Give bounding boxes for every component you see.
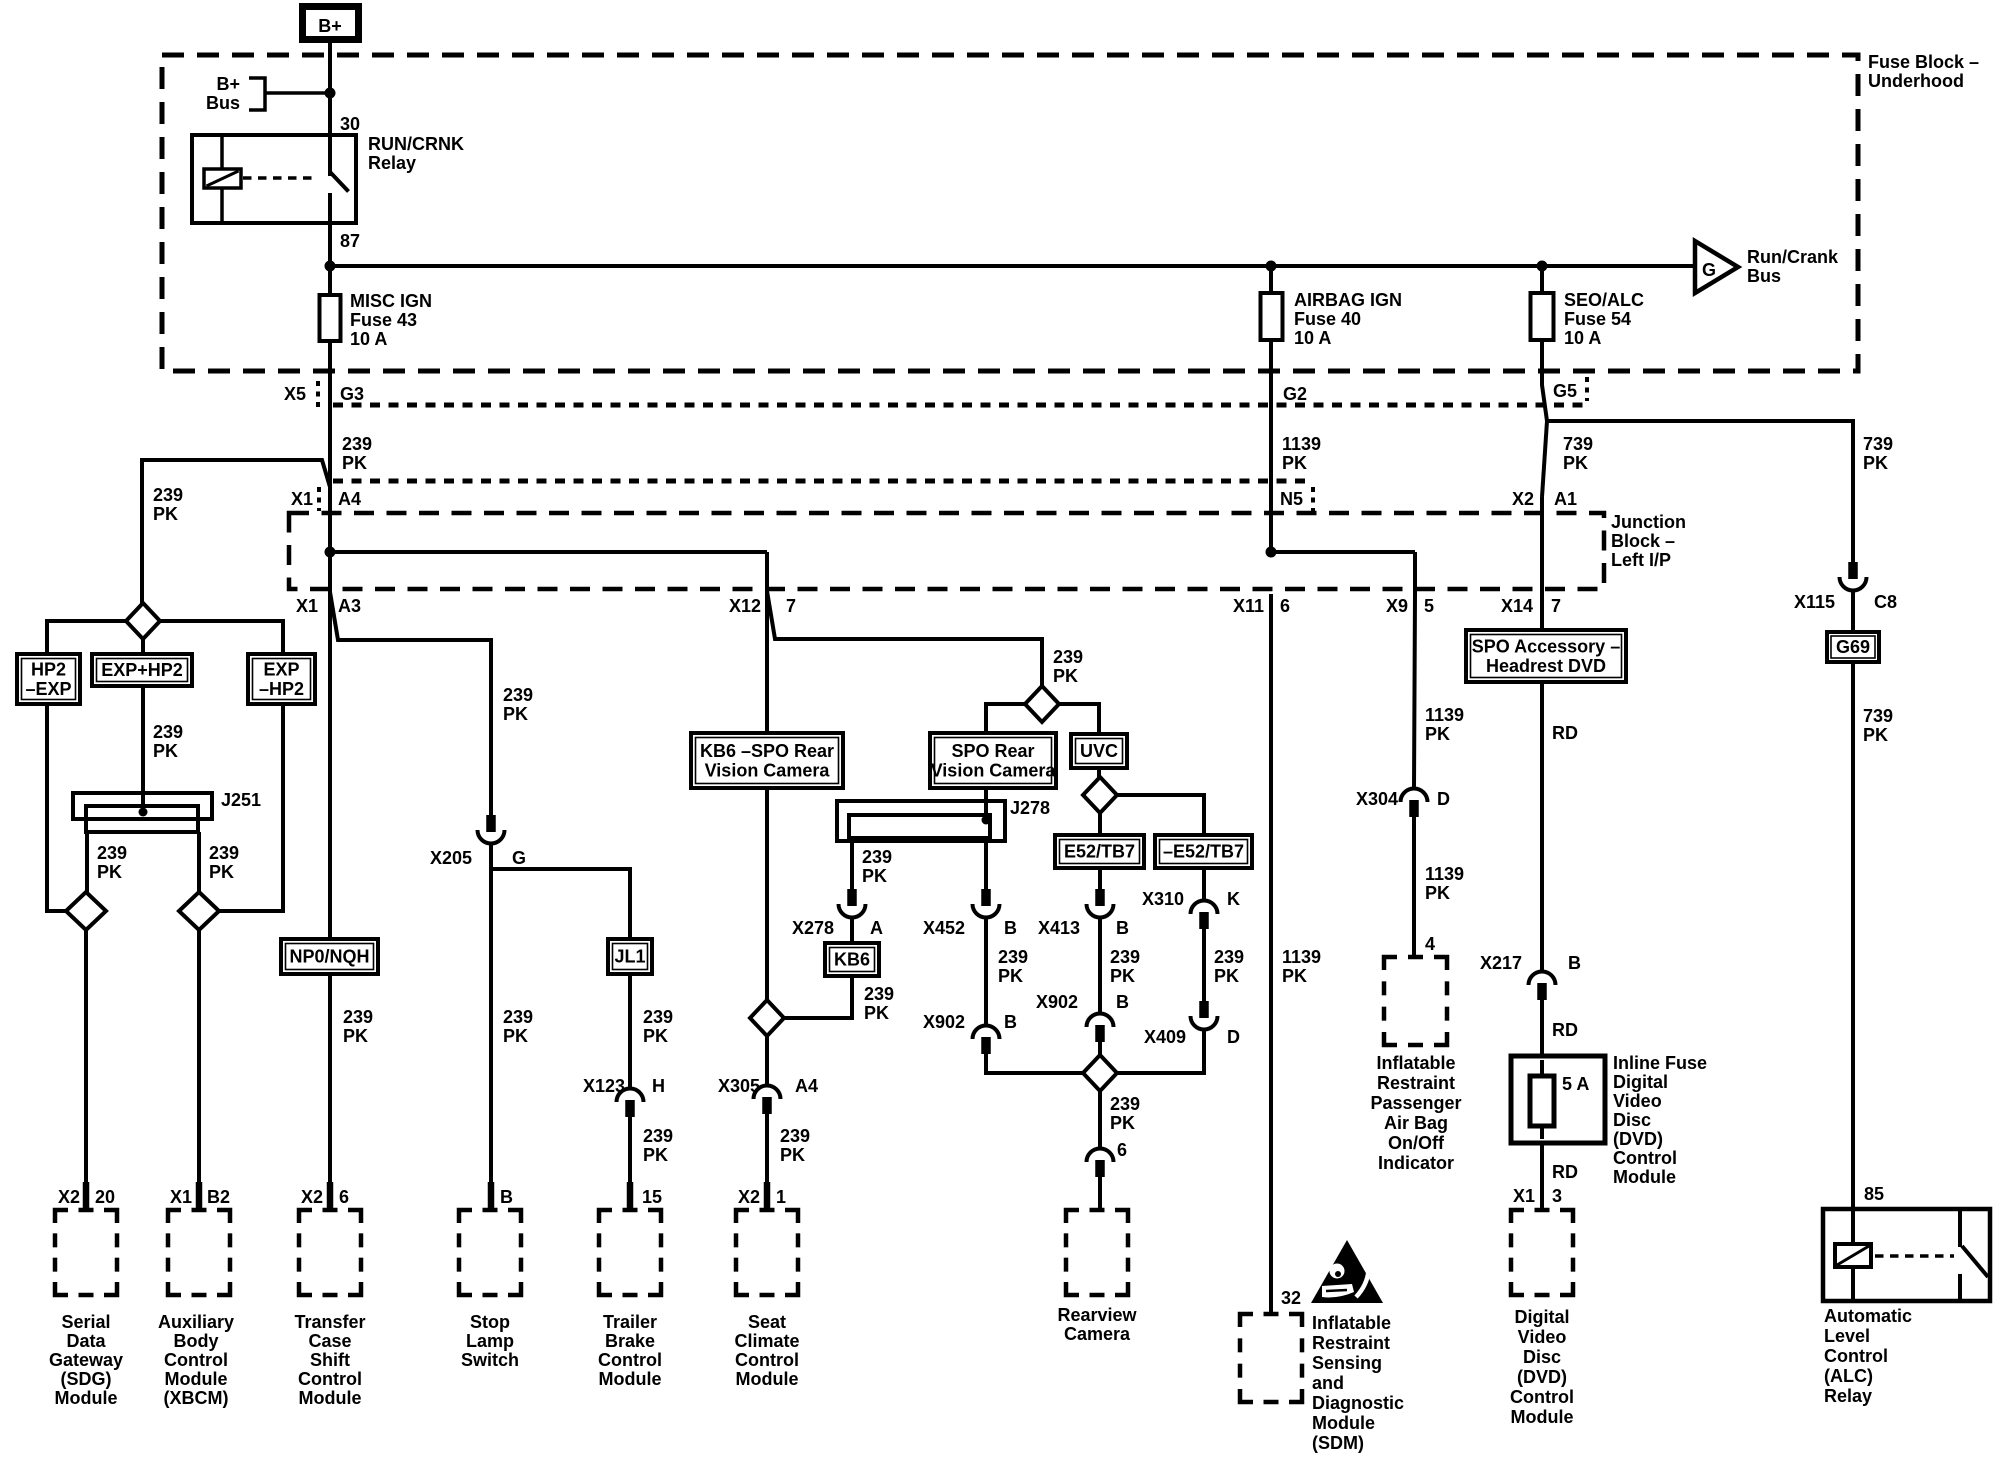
svg-text:B: B <box>1568 953 1581 973</box>
svg-text:Relay: Relay <box>368 153 416 173</box>
wire X278 to small KB6 box <box>850 918 854 943</box>
wire X902 right to rearview diamond <box>1098 1040 1102 1057</box>
svg-text:32: 32 <box>1281 1288 1301 1308</box>
svg-text:239: 239 <box>153 722 183 742</box>
svg-text:(XBCM): (XBCM) <box>164 1388 229 1408</box>
svg-text:85: 85 <box>1864 1184 1884 1204</box>
svg-text:Junction: Junction <box>1611 512 1686 532</box>
svg-text:Level: Level <box>1824 1326 1870 1346</box>
wire HP2-EXP down to SDG diamond <box>47 704 66 911</box>
fuse 43 MISC IGN <box>328 266 332 295</box>
relay actuation dashed link <box>243 176 318 180</box>
svg-text:A4: A4 <box>338 489 361 509</box>
inline connector X205 pin G <box>486 815 496 832</box>
svg-text:G3: G3 <box>340 384 364 404</box>
svg-text:Control: Control <box>164 1350 228 1370</box>
svg-text:1: 1 <box>776 1187 786 1207</box>
svg-text:Indicator: Indicator <box>1378 1153 1454 1173</box>
wire X217 to inline fuse <box>1540 1000 1544 1056</box>
svg-text:B2: B2 <box>207 1187 230 1207</box>
svg-text:(DVD): (DVD) <box>1613 1129 1663 1149</box>
svg-text:UVC: UVC <box>1080 741 1118 761</box>
wire KB6 box down to seat diamond <box>765 788 769 1001</box>
svg-text:Inflatable: Inflatable <box>1312 1313 1391 1333</box>
svg-text:Block –: Block – <box>1611 531 1675 551</box>
svg-text:239: 239 <box>503 685 533 705</box>
junction block - left I/P dashed border <box>289 513 1604 589</box>
svg-text:Body: Body <box>174 1331 219 1351</box>
option box HP2 -EXP <box>17 654 80 704</box>
wire 239 branch to left modules tree <box>142 460 330 605</box>
svg-text:KB6 –SPO Rear: KB6 –SPO Rear <box>700 741 834 761</box>
svg-text:RUN/CRNK: RUN/CRNK <box>368 134 464 154</box>
svg-text:Climate: Climate <box>734 1331 799 1351</box>
node B+ battery feed box <box>303 7 359 40</box>
svg-text:1139: 1139 <box>1425 705 1464 725</box>
svg-text:EXP+HP2: EXP+HP2 <box>101 660 183 680</box>
wire diamond2 to -E52/TB7 <box>1117 795 1204 835</box>
svg-text:EXP: EXP <box>263 659 299 679</box>
svg-text:Switch: Switch <box>461 1350 519 1370</box>
svg-text:PK: PK <box>1282 966 1307 986</box>
wire airbag ign down to SDM <box>1269 594 1273 1316</box>
option diamond UVC split <box>1083 777 1117 813</box>
svg-text:20: 20 <box>95 1187 115 1207</box>
fuse block - underhood dashed border <box>162 55 1858 371</box>
svg-text:Fuse 40: Fuse 40 <box>1294 309 1361 329</box>
option diamond seat climate <box>750 1000 784 1036</box>
svg-text:Fuse 54: Fuse 54 <box>1564 309 1631 329</box>
svg-text:7: 7 <box>786 596 796 616</box>
ALC relay coil feed wires <box>1851 1209 1855 1244</box>
wire camera box to J278 <box>984 788 988 818</box>
fuse 54 SEO/ALC <box>1540 266 1544 293</box>
option box EXP -HP2 <box>248 654 315 704</box>
svg-text:Module: Module <box>55 1388 118 1408</box>
svg-text:Disc: Disc <box>1523 1347 1561 1367</box>
svg-text:B: B <box>1116 918 1129 938</box>
wire NP0/NQH to transfer case module <box>328 974 332 1185</box>
module box Serial Data Gateway dashed <box>55 1210 68 1223</box>
svg-text:87: 87 <box>340 231 360 251</box>
svg-text:Serial: Serial <box>61 1312 110 1332</box>
svg-text:Stop: Stop <box>470 1312 510 1332</box>
ALC relay coil <box>1835 1244 1871 1267</box>
splice pack J251 <box>73 793 212 819</box>
svg-text:PK: PK <box>153 504 178 524</box>
svg-text:X115: X115 <box>1794 592 1835 612</box>
wire JL1 down <box>628 974 632 1087</box>
wire MISC IGN fuse down to junction block <box>328 403 332 552</box>
svg-text:PK: PK <box>643 1026 668 1046</box>
svg-text:239: 239 <box>643 1007 673 1027</box>
option box E52/TB7 <box>1055 835 1144 868</box>
svg-text:X205: X205 <box>430 848 472 868</box>
module box Seat Climate Control Module dashed <box>736 1210 749 1223</box>
svg-text:A: A <box>870 918 883 938</box>
svg-text:3: 3 <box>1552 1186 1562 1206</box>
svg-text:A3: A3 <box>338 596 361 616</box>
svg-text:X902: X902 <box>1036 992 1078 1012</box>
wire diamond3 down <box>1098 1091 1102 1147</box>
wire J278 left output to X278 <box>850 838 854 891</box>
svg-text:Automatic: Automatic <box>1824 1306 1912 1326</box>
svg-text:239: 239 <box>503 1007 533 1027</box>
svg-text:Relay: Relay <box>1824 1386 1872 1406</box>
svg-text:PK: PK <box>1110 966 1135 986</box>
svg-text:Headrest DVD: Headrest DVD <box>1486 656 1606 676</box>
svg-text:X2: X2 <box>738 1187 760 1207</box>
svg-text:Camera: Camera <box>1064 1324 1131 1344</box>
option box NP0/NQH <box>281 939 378 974</box>
svg-text:Control: Control <box>1613 1148 1677 1168</box>
wire X452 to X902 left <box>984 918 988 1024</box>
svg-text:239: 239 <box>1214 947 1244 967</box>
inline fuse box DVD <box>1511 1056 1605 1143</box>
svg-text:–EXP: –EXP <box>25 679 71 699</box>
svg-text:B: B <box>1004 918 1017 938</box>
wire A3 branch to stop lamp switch <box>330 592 491 832</box>
svg-text:1139: 1139 <box>1282 434 1321 454</box>
relay switch blade <box>330 172 349 192</box>
svg-text:E52/TB7: E52/TB7 <box>1064 842 1135 862</box>
svg-text:PK: PK <box>97 862 122 882</box>
wire J278 right output to X452 <box>984 838 988 891</box>
option diamond XBCM feed <box>179 892 219 930</box>
wire diamond to EXP+HP2 <box>141 639 145 654</box>
svg-text:N5: N5 <box>1280 489 1303 509</box>
wire G69 down to ALC relay <box>1851 662 1855 1209</box>
option box EXP+HP2 <box>92 654 192 686</box>
wire EXP+HP2 to J251 <box>141 686 145 810</box>
svg-text:1139: 1139 <box>1282 947 1321 967</box>
svg-text:739: 739 <box>1563 434 1593 454</box>
svg-text:4: 4 <box>1425 934 1435 954</box>
wire 739 branch to X115 <box>1547 421 1853 564</box>
svg-text:Digital: Digital <box>1613 1072 1668 1092</box>
airbag warning triangle icon <box>1311 1240 1383 1303</box>
svg-text:Diagnostic: Diagnostic <box>1312 1393 1404 1413</box>
svg-text:SEO/ALC: SEO/ALC <box>1564 290 1644 310</box>
svg-text:X304: X304 <box>1356 789 1398 809</box>
svg-text:239: 239 <box>1053 647 1083 667</box>
svg-text:G2: G2 <box>1283 384 1307 404</box>
wire SEO/ALC fuse down through G5 <box>1542 341 1547 421</box>
svg-text:X217: X217 <box>1480 953 1522 973</box>
svg-text:X5: X5 <box>284 384 306 404</box>
svg-text:AIRBAG IGN: AIRBAG IGN <box>1294 290 1402 310</box>
svg-text:(DVD): (DVD) <box>1517 1367 1567 1387</box>
wire diamond to XBCM module <box>197 930 201 1185</box>
svg-text:Transfer: Transfer <box>294 1312 365 1332</box>
option box G69 <box>1827 632 1879 662</box>
svg-text:PK: PK <box>862 866 887 886</box>
wire diamond to small KB6 <box>784 976 852 1018</box>
wire X115 to G69 <box>1851 591 1855 632</box>
junction block internal bus left <box>330 550 767 554</box>
module box DVD control module dashed <box>1511 1210 1524 1223</box>
svg-text:PK: PK <box>1425 724 1450 744</box>
svg-text:RD: RD <box>1552 723 1578 743</box>
svg-text:239: 239 <box>864 984 894 1004</box>
svg-text:PK: PK <box>503 1026 528 1046</box>
svg-text:5: 5 <box>1424 596 1434 616</box>
svg-text:239: 239 <box>97 843 127 863</box>
wire relay 87 to run/crank bus <box>328 223 332 266</box>
svg-text:(ALC): (ALC) <box>1824 1366 1873 1386</box>
svg-text:X1: X1 <box>170 1187 192 1207</box>
relay ALC box <box>1823 1209 1990 1301</box>
svg-text:A4: A4 <box>795 1076 818 1096</box>
svg-text:6: 6 <box>339 1187 349 1207</box>
svg-text:–HP2: –HP2 <box>259 679 304 699</box>
relay RUN/CRNK box <box>192 135 356 223</box>
svg-text:Run/Crank: Run/Crank <box>1747 247 1839 267</box>
bus arrow G Run/Crank Bus <box>1695 241 1738 293</box>
fuse 40 AIRBAG IGN <box>1269 266 1273 293</box>
option box UVC <box>1071 734 1127 768</box>
wire EXP-HP2 down to XBCM diamond <box>219 704 283 911</box>
option diamond rearview camera feed <box>1083 1055 1117 1091</box>
svg-text:Lamp: Lamp <box>466 1331 514 1351</box>
module box air bag indicator dashed <box>1384 957 1397 970</box>
svg-text:X2: X2 <box>1512 489 1534 509</box>
svg-text:X2: X2 <box>58 1187 80 1207</box>
wire E52/TB7 down to X413 <box>1098 868 1102 891</box>
svg-text:X902: X902 <box>923 1012 965 1032</box>
svg-text:RD: RD <box>1552 1020 1578 1040</box>
wire diamond down to X305 <box>765 1036 769 1084</box>
option box JL1 <box>608 939 652 974</box>
svg-text:SPO Accessory –: SPO Accessory – <box>1472 636 1620 656</box>
svg-text:PK: PK <box>1110 1113 1135 1133</box>
svg-text:K: K <box>1227 889 1240 909</box>
svg-text:PK: PK <box>343 1026 368 1046</box>
option diamond rear vision camera <box>1025 686 1059 722</box>
svg-text:X12: X12 <box>729 596 761 616</box>
svg-text:Control: Control <box>1510 1387 1574 1407</box>
svg-text:MISC IGN: MISC IGN <box>350 291 432 311</box>
module box Transfer Case Shift Control Module dashed <box>299 1210 312 1223</box>
svg-text:Brake: Brake <box>605 1331 655 1351</box>
svg-text:6: 6 <box>1117 1140 1127 1160</box>
option diamond SDG feed <box>66 892 106 930</box>
wire J251 right output <box>197 832 201 893</box>
svg-text:and: and <box>1312 1373 1344 1393</box>
svg-text:5 A: 5 A <box>1562 1074 1589 1094</box>
svg-text:Module: Module <box>1613 1167 1676 1187</box>
svg-text:239: 239 <box>209 843 239 863</box>
svg-text:A1: A1 <box>1554 489 1577 509</box>
svg-text:Restraint: Restraint <box>1377 1073 1455 1093</box>
wire main down through junction block <box>328 552 332 594</box>
option box KB6 -SPO Rear Vision Camera <box>691 733 843 788</box>
wire to X9 pin 5 <box>1413 552 1417 594</box>
wire connector to rearview camera box <box>1098 1177 1102 1209</box>
svg-text:PK: PK <box>1282 453 1307 473</box>
svg-text:239: 239 <box>780 1126 810 1146</box>
module box SDM dashed <box>1240 1314 1253 1327</box>
svg-text:10 A: 10 A <box>1564 328 1601 348</box>
wire SPO accessory down to X217 <box>1540 630 1544 632</box>
wire X9 down to X304 <box>1414 594 1415 787</box>
wire X205 to stop lamp switch <box>489 844 493 1185</box>
svg-text:Fuse Block –: Fuse Block – <box>1868 52 1979 72</box>
svg-text:(SDG): (SDG) <box>61 1369 112 1389</box>
svg-text:Video: Video <box>1613 1091 1662 1111</box>
wire X12 branch to camera diamond <box>767 591 1042 688</box>
svg-text:239: 239 <box>1110 1094 1140 1114</box>
wire AIRBAG fuse down to junction block <box>1269 405 1273 552</box>
svg-text:6: 6 <box>1280 596 1290 616</box>
svg-text:Vision Camera: Vision Camera <box>931 760 1057 780</box>
svg-text:Module: Module <box>736 1369 799 1389</box>
wire diamond to SDG module <box>84 930 88 1185</box>
svg-text:KB6: KB6 <box>834 950 870 970</box>
svg-text:10 A: 10 A <box>1294 328 1331 348</box>
svg-text:Vision Camera: Vision Camera <box>705 760 831 780</box>
svg-text:PK: PK <box>209 862 234 882</box>
svg-text:X1: X1 <box>296 596 318 616</box>
svg-text:739: 739 <box>1863 706 1893 726</box>
svg-text:1139: 1139 <box>1425 864 1464 884</box>
option diamond EXP/HP2 split <box>140 604 144 605</box>
svg-text:X1: X1 <box>291 489 313 509</box>
svg-text:(SDM): (SDM) <box>1312 1433 1364 1453</box>
svg-text:239: 239 <box>643 1126 673 1146</box>
svg-text:Data: Data <box>66 1331 106 1351</box>
option box KB6 small <box>825 943 879 976</box>
svg-text:PK: PK <box>998 966 1023 986</box>
svg-text:PK: PK <box>1425 883 1450 903</box>
svg-text:J278: J278 <box>1010 798 1050 818</box>
svg-text:B: B <box>500 1187 513 1207</box>
svg-text:B+: B+ <box>216 74 240 94</box>
svg-text:PK: PK <box>1214 966 1239 986</box>
wire A3 down to NP0/NQH <box>328 594 332 939</box>
svg-text:Shift: Shift <box>310 1350 350 1370</box>
svg-text:239: 239 <box>1110 947 1140 967</box>
svg-text:JL1: JL1 <box>614 947 645 967</box>
svg-text:Seat: Seat <box>748 1312 786 1332</box>
svg-text:D: D <box>1227 1027 1240 1047</box>
svg-text:Control: Control <box>735 1350 799 1370</box>
svg-text:Case: Case <box>308 1331 351 1351</box>
splice pack J278 <box>837 801 1005 841</box>
wire B+ to relay pin 30 <box>328 40 332 176</box>
wire X305 to seat climate module <box>765 1114 769 1185</box>
svg-text:Restraint: Restraint <box>1312 1333 1390 1353</box>
svg-text:PK: PK <box>503 704 528 724</box>
svg-text:Module: Module <box>1511 1407 1574 1427</box>
svg-text:H: H <box>652 1076 665 1096</box>
junction block internal bus right <box>1271 550 1415 554</box>
svg-text:On/Off: On/Off <box>1388 1133 1445 1153</box>
module box Stop Lamp Switch dashed <box>459 1210 472 1223</box>
svg-text:G: G <box>1702 260 1716 280</box>
svg-text:Digital: Digital <box>1514 1307 1569 1327</box>
fuse block output dotted row <box>333 403 1583 408</box>
module box Rearview Camera <box>1066 1210 1079 1223</box>
svg-text:10 A: 10 A <box>350 329 387 349</box>
wire inline fuse to DVD module <box>1540 1143 1544 1209</box>
svg-text:PK: PK <box>153 741 178 761</box>
ALC relay actuation dashed link <box>1875 1254 1954 1258</box>
svg-text:Trailer: Trailer <box>603 1312 657 1332</box>
wire -E52/TB7 down to X310 <box>1202 868 1206 899</box>
svg-text:X1: X1 <box>1513 1186 1535 1206</box>
wire diamond1 to UVC box <box>1059 704 1099 734</box>
option box -E52/TB7 <box>1155 835 1252 868</box>
run/crank bus horizontal wire <box>330 264 1697 268</box>
wire 739 down to X2 A1 <box>1542 421 1547 497</box>
wire diamond to EXP-HP2 <box>160 621 283 654</box>
svg-text:Left I/P: Left I/P <box>1611 550 1671 570</box>
svg-text:Control: Control <box>298 1369 362 1389</box>
svg-text:PK: PK <box>864 1003 889 1023</box>
wire X123 to trailer brake module <box>628 1115 632 1185</box>
svg-text:7: 7 <box>1551 596 1561 616</box>
svg-text:Control: Control <box>598 1350 662 1370</box>
svg-text:239: 239 <box>998 947 1028 967</box>
svg-text:RD: RD <box>1552 1162 1578 1182</box>
svg-text:Rearview: Rearview <box>1057 1305 1137 1325</box>
module box Auxiliary Body Control Module dashed <box>168 1210 181 1223</box>
svg-text:Inflatable: Inflatable <box>1376 1053 1455 1073</box>
svg-text:G5: G5 <box>1553 381 1577 401</box>
ALC relay switch <box>1958 1209 1962 1247</box>
option box SPO Accessory - Headrest DVD <box>1466 630 1626 682</box>
svg-text:X11: X11 <box>1233 596 1264 616</box>
wire diamond to HP2-EXP <box>47 621 126 654</box>
svg-text:G69: G69 <box>1836 637 1870 657</box>
wire X902 left to rearview diamond <box>986 1054 1084 1073</box>
svg-text:X310: X310 <box>1142 889 1184 909</box>
svg-text:Disc: Disc <box>1613 1110 1651 1130</box>
svg-text:B: B <box>1116 992 1129 1012</box>
svg-text:Module: Module <box>299 1388 362 1408</box>
svg-text:PK: PK <box>1563 453 1588 473</box>
svg-text:J251: J251 <box>221 790 261 810</box>
svg-text:Module: Module <box>165 1369 228 1389</box>
svg-text:Underhood: Underhood <box>1868 71 1964 91</box>
svg-text:G: G <box>512 848 526 868</box>
svg-text:PK: PK <box>342 453 367 473</box>
wire X413 to X902 right <box>1098 918 1102 1012</box>
svg-text:X452: X452 <box>923 918 965 938</box>
svg-text:Fuse 43: Fuse 43 <box>350 310 417 330</box>
svg-text:X413: X413 <box>1038 918 1080 938</box>
svg-text:D: D <box>1437 789 1450 809</box>
svg-text:NP0/NQH: NP0/NQH <box>289 947 369 967</box>
wire to X12 pin 7 <box>765 552 769 591</box>
wire X304 to air bag indicator <box>1412 817 1416 957</box>
svg-text:SPO Rear: SPO Rear <box>951 741 1034 761</box>
svg-text:X409: X409 <box>1144 1027 1186 1047</box>
svg-text:Video: Video <box>1518 1327 1567 1347</box>
svg-text:239: 239 <box>342 434 372 454</box>
svg-text:X14: X14 <box>1501 596 1533 616</box>
svg-text:Module: Module <box>1312 1413 1375 1433</box>
svg-text:Passenger: Passenger <box>1370 1093 1461 1113</box>
svg-text:Sensing: Sensing <box>1312 1353 1382 1373</box>
module box Trailer Brake Control Module dashed <box>599 1210 612 1223</box>
svg-text:Auxiliary: Auxiliary <box>158 1312 234 1332</box>
svg-text:PK: PK <box>1053 666 1078 686</box>
svg-text:Gateway: Gateway <box>49 1350 123 1370</box>
svg-text:PK: PK <box>643 1145 668 1165</box>
wire X12 down to KB6 camera box <box>765 591 769 733</box>
